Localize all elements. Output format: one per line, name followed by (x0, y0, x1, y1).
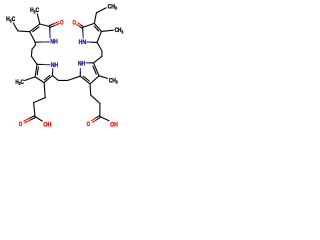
wire N-B2 (52, 69, 54, 73)
double bond B4=B1 (35, 64, 37, 77)
svg-text:HN: HN (79, 39, 87, 46)
wire ethyl D bond1 (94, 13, 96, 24)
wire methyl B (25, 77, 35, 81)
svg-text:CH3: CH3 (109, 77, 118, 84)
wire D2-N (82, 27, 84, 32)
wire C-OH left (35, 117, 42, 121)
wire bridge A-B seg4 (31, 56, 37, 64)
wire ethyl D bond2 (96, 8, 106, 13)
wire methyl C (99, 76, 108, 79)
wire A2-A3 (40, 24, 50, 27)
wire B3-B4 (35, 77, 44, 83)
C=O ring D (81, 25, 84, 27)
wire bridge A-B seg3 (30, 49, 33, 56)
wire bridge C-D seg2 (101, 51, 103, 56)
double bond A3=A4 (30, 24, 40, 32)
svg-text:H3C: H3C (30, 7, 39, 14)
wire bridge B-C seg3 (68, 76, 81, 80)
C=O carboxyl left (29, 116, 34, 119)
wire bridge B-C seg2 (58, 79, 67, 81)
svg-text:OH: OH (110, 121, 118, 128)
wire N-C2 (79, 69, 81, 73)
svg-text:H3C: H3C (6, 16, 15, 23)
svg-text:CH3: CH3 (108, 3, 118, 10)
wire propR seg3 (99, 103, 101, 116)
wire propL seg1 (44, 83, 45, 98)
svg-text:H3C: H3C (15, 79, 24, 86)
wire bridge B-C seg1 (53, 76, 59, 81)
svg-text:NH: NH (51, 62, 59, 69)
wire methyl D (101, 30, 113, 31)
svg-text:NH: NH (50, 39, 58, 46)
wire D5-N (92, 41, 98, 43)
wire bridge A-B seg2 (32, 45, 35, 49)
wire A4-A5 (30, 32, 36, 43)
wire bridge C-D seg1 (94, 56, 102, 63)
svg-text:CH3: CH3 (115, 27, 124, 34)
C=O ring A (50, 26, 55, 28)
C=O carboxyl right (95, 116, 99, 119)
svg-text:O: O (87, 121, 91, 128)
svg-text:O: O (72, 19, 76, 26)
wire D4-D5 (97, 31, 101, 42)
double bond D3=D4 (94, 23, 101, 31)
wire bridge A-B seg1 (34, 42, 36, 45)
wire D2-D3 (83, 23, 95, 27)
wire bridge C-D seg3 (97, 42, 102, 51)
double bond B2=B3 (44, 76, 52, 83)
svg-text:O: O (60, 19, 64, 26)
wire propR seg1 (89, 84, 92, 95)
wire propL seg2 (34, 98, 46, 103)
wire A5-N1 (35, 41, 42, 43)
wire methyl A (37, 14, 40, 24)
wire propR seg2 (91, 95, 100, 103)
wire C-OH right (100, 117, 109, 121)
svg-text:NH: NH (78, 61, 86, 68)
wire ethyl A bond1 (18, 30, 30, 33)
wire A2-N1 (49, 27, 51, 33)
wire C5-N (90, 62, 94, 64)
svg-text:O: O (19, 121, 23, 128)
double bond C3=C2 (80, 76, 90, 84)
double bond C5=C4 (94, 63, 100, 76)
wire B1-N (37, 63, 44, 65)
wire ethyl A bond2 (13, 23, 17, 31)
svg-text:OH: OH (43, 121, 51, 128)
wire C4-C3 (90, 76, 99, 84)
wire propL seg3 (34, 103, 35, 117)
